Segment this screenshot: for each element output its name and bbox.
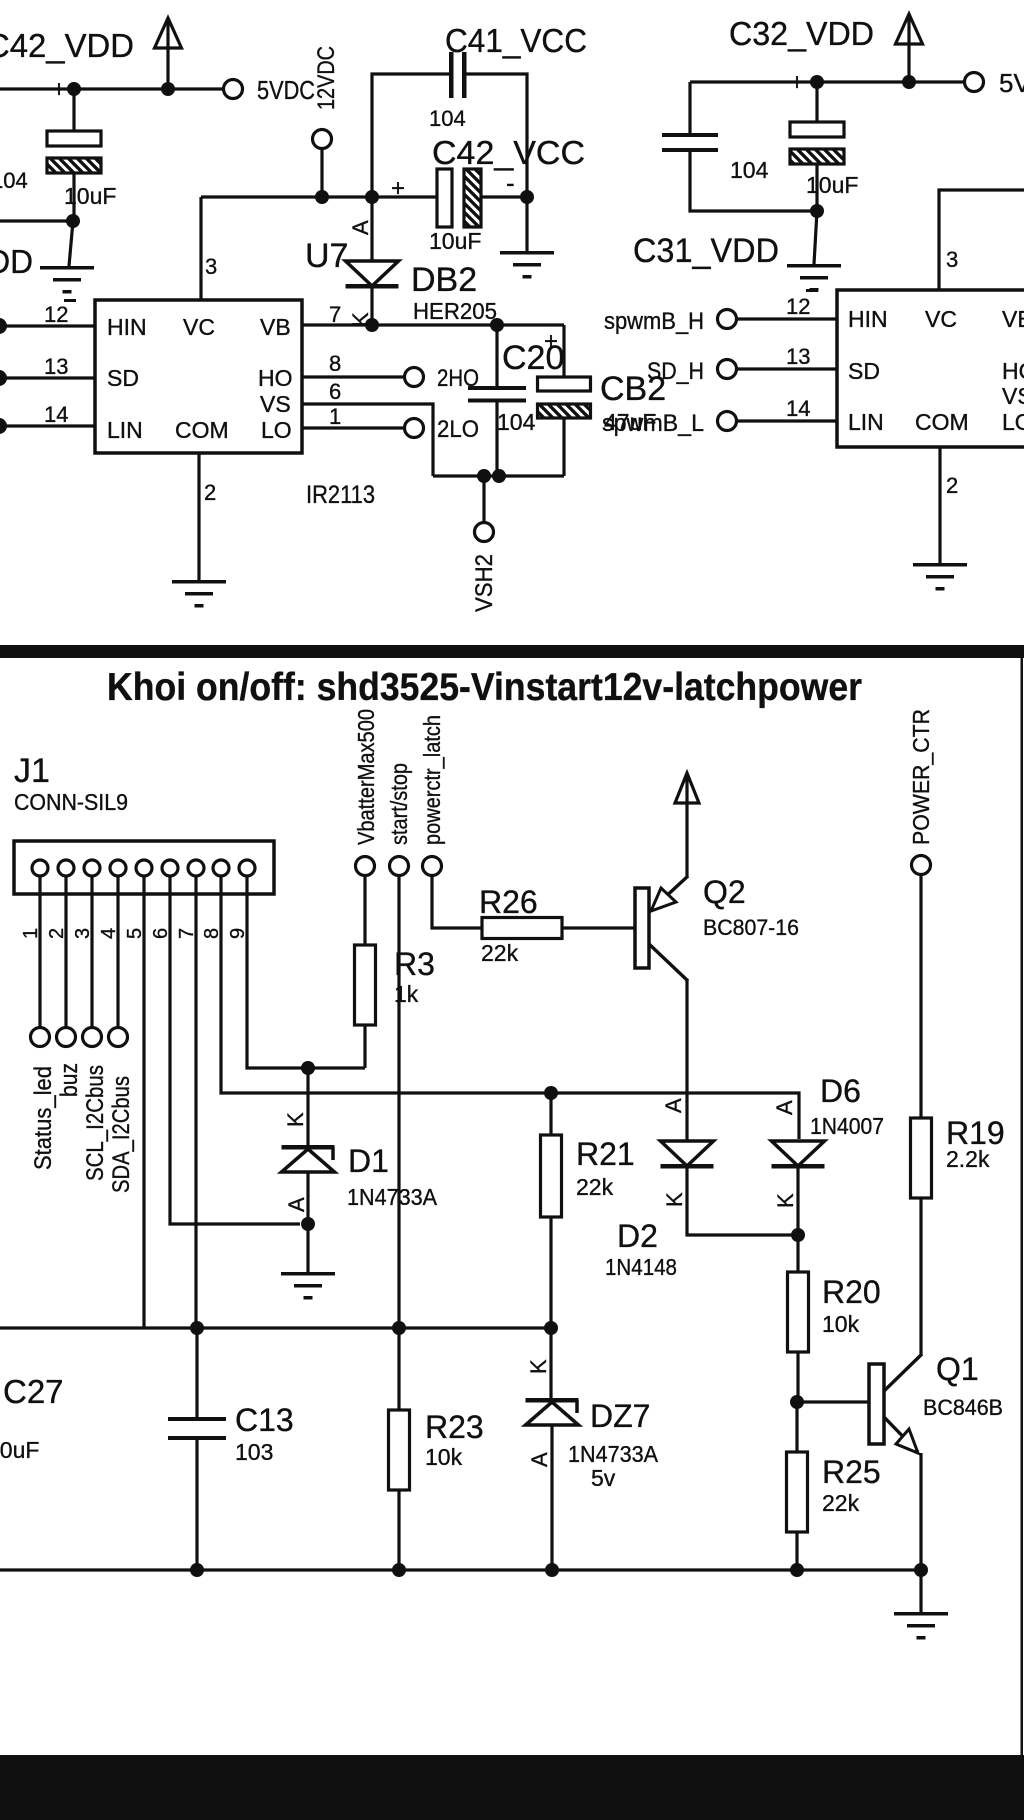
svg-text:R21: R21 xyxy=(576,1136,635,1172)
junction D1 anode / pin6 xyxy=(301,1217,315,1231)
pin 1 wire LO xyxy=(302,426,405,429)
svg-text:104: 104 xyxy=(429,106,466,131)
pin 3 wire VC right IC xyxy=(939,190,1024,290)
svg-text:BC807-16: BC807-16 xyxy=(703,915,799,940)
svg-text:10k: 10k xyxy=(822,1311,860,1337)
svg-text:J1: J1 xyxy=(14,752,50,790)
svg-text:10k: 10k xyxy=(425,1444,463,1470)
svg-text:VbatterMax500: VbatterMax500 xyxy=(353,709,379,845)
resistor R19 xyxy=(911,1118,932,1198)
wire down to ground right of C42_VCC xyxy=(525,197,528,251)
svg-text:spwmB_L: spwmB_L xyxy=(602,410,704,437)
svg-text:12VDC: 12VDC xyxy=(313,46,340,110)
svg-text:1N4733A: 1N4733A xyxy=(568,1441,659,1467)
pin 7 wire VB xyxy=(302,323,564,326)
capacitor C31 104 (ceramic) xyxy=(688,82,691,133)
wire Q1 emitter to ground rail xyxy=(919,1453,922,1570)
svg-text:Status_led: Status_led xyxy=(30,1066,57,1170)
svg-text:C27: C27 xyxy=(3,1373,64,1410)
diode DB2 HER205 xyxy=(346,261,399,286)
svg-text:SD_H: SD_H xyxy=(647,358,704,385)
svg-text:R26: R26 xyxy=(479,884,538,920)
svg-text:6: 6 xyxy=(329,379,341,404)
wire R20 top xyxy=(796,1235,799,1272)
wire R21 bottom to mid rail xyxy=(549,1217,552,1328)
svg-text:K: K xyxy=(283,1112,308,1127)
svg-text:1N4733A: 1N4733A xyxy=(347,1184,438,1210)
IC IR2113 box (right, clipped) xyxy=(837,290,1024,447)
resistor R23 xyxy=(389,1410,410,1490)
capacitor C42_VCC 10uF (electrolytic, horizontal) xyxy=(437,169,452,227)
wire D2 cathode to R20 node xyxy=(687,1166,798,1235)
svg-text:K: K xyxy=(662,1192,687,1207)
svg-text:Khoi on/off: shd3525-Vinstart1: Khoi on/off: shd3525-Vinstart12v-latchpo… xyxy=(107,666,862,709)
transistor Q1 BC846B (NPN) xyxy=(869,1364,884,1444)
terminal buz xyxy=(57,1028,76,1047)
junction ground rail/R23 xyxy=(392,1563,406,1577)
bottom black bar xyxy=(0,1755,1024,1820)
svg-text:IR2113: IR2113 xyxy=(306,481,375,509)
svg-text:LO: LO xyxy=(261,417,292,443)
wire VSH2 drop xyxy=(482,476,485,523)
terminal VbatterMax500 xyxy=(356,857,375,876)
svg-text:VC: VC xyxy=(925,306,957,332)
svg-text:12: 12 xyxy=(786,294,810,319)
svg-text:HO: HO xyxy=(1002,358,1024,384)
resistor R20 xyxy=(788,1272,809,1352)
resistor R25 xyxy=(787,1452,808,1532)
junction R21 top xyxy=(544,1086,558,1100)
transistor Q2 BC807-16 (PNP) xyxy=(635,888,649,968)
capacitor CB2 47uF (electrolytic) xyxy=(562,325,565,377)
svg-text:A: A xyxy=(348,220,373,235)
wire down to ground below C32 xyxy=(814,211,817,264)
cathode wire of DB2 to VB node xyxy=(370,288,373,325)
resistor R3 xyxy=(355,945,376,1025)
svg-text:1N4148: 1N4148 xyxy=(605,1254,677,1280)
terminal start/stop xyxy=(390,857,409,876)
wire Q2 collector down to D2 xyxy=(685,980,688,1140)
junction VB / DB2 cathode xyxy=(365,318,379,332)
svg-text:CONN-SIL9: CONN-SIL9 xyxy=(14,789,128,815)
connector pin 1 circle xyxy=(32,860,48,876)
wire Q1 base xyxy=(797,1400,869,1403)
junction rail/R23 xyxy=(392,1321,406,1335)
diode D2 1N4148 xyxy=(661,1141,714,1166)
svg-text:C42_VDD: C42_VDD xyxy=(0,27,134,64)
wire J1 pin 2 to terminal xyxy=(64,875,67,1028)
terminal 5VDC xyxy=(224,80,243,99)
svg-text:C41_VDD: C41_VDD xyxy=(0,243,33,280)
svg-text:VS: VS xyxy=(260,391,291,417)
svg-text:5v: 5v xyxy=(591,1465,616,1491)
svg-text:powerctr_latch: powerctr_latch xyxy=(419,715,445,845)
svg-text:1: 1 xyxy=(329,404,341,429)
svg-text:A: A xyxy=(772,1100,797,1115)
svg-text:1N4007: 1N4007 xyxy=(810,1113,884,1139)
pin 6 wire VS xyxy=(302,404,433,476)
svg-text:2: 2 xyxy=(204,480,216,505)
junction C32 top xyxy=(810,75,824,89)
zener diode DZ7 1N4733A xyxy=(526,1398,579,1403)
wire J1 pin 8 down and right to D6 xyxy=(221,875,799,1139)
svg-text:VS: VS xyxy=(1002,383,1024,409)
terminal powerctr_latch xyxy=(423,857,442,876)
svg-text:POWER_CTR: POWER_CTR xyxy=(908,709,934,845)
wire J1 pin 3 to terminal xyxy=(90,875,93,1028)
wire C41 right xyxy=(466,74,527,197)
svg-text:R25: R25 xyxy=(822,1454,881,1490)
junction VB / C20 xyxy=(490,318,504,332)
junction R20/R25/Q1 base xyxy=(790,1395,804,1409)
wire D1 anode to ground xyxy=(306,1224,309,1272)
svg-text:22k: 22k xyxy=(481,940,519,966)
capacitor C13 103 xyxy=(195,1328,198,1417)
pin 3 wire VC up to VCC node xyxy=(199,197,202,300)
wire powerctr_latch to R26 xyxy=(432,875,482,928)
wire R25 bottom xyxy=(795,1532,798,1570)
junction ground rail/DZ7 xyxy=(545,1563,559,1577)
terminal Status_led xyxy=(31,1028,50,1047)
svg-text:C13: C13 xyxy=(235,1402,294,1438)
connector pin 5 circle xyxy=(136,860,152,876)
junction below right power arrow xyxy=(902,75,916,89)
mid node rail xyxy=(0,1326,551,1329)
svg-text:10uF: 10uF xyxy=(64,183,116,209)
terminal VSH2 xyxy=(475,523,494,542)
wire R21 top xyxy=(549,1093,552,1135)
svg-text:VSH2: VSH2 xyxy=(471,554,498,612)
wire R3 bottom xyxy=(363,1025,366,1068)
zener diode D1 1N4733A xyxy=(282,1145,335,1150)
section divider bar xyxy=(0,645,1024,658)
junction ground rail/Q1 xyxy=(914,1563,928,1577)
svg-text:spwmB_H: spwmB_H xyxy=(604,308,704,335)
svg-text:R23: R23 xyxy=(425,1409,484,1445)
svg-text:14: 14 xyxy=(786,396,810,421)
junction rail/C13 xyxy=(190,1321,204,1335)
svg-text:SD: SD xyxy=(848,358,880,384)
wire J1 pin 7 down to mid rail xyxy=(194,875,197,1328)
wire VS bottom rail xyxy=(433,474,564,477)
svg-text:COM: COM xyxy=(175,417,229,443)
junction DB2/C41 node xyxy=(365,190,379,204)
svg-text:D6: D6 xyxy=(820,1073,861,1109)
junction below power arrow xyxy=(161,82,175,96)
svg-text:3: 3 xyxy=(946,247,958,272)
connector pin 4 circle xyxy=(110,860,126,876)
svg-text:+: + xyxy=(544,328,558,355)
pin 14 input wire LIN xyxy=(5,424,95,427)
wire VDD net at left xyxy=(0,219,73,222)
svg-text:SCL_I2Cbus: SCL_I2Cbus xyxy=(82,1065,109,1181)
wire J1 pin 4 to terminal xyxy=(116,875,119,1028)
pin 13 wire right IC xyxy=(736,367,837,370)
svg-text:5VDC: 5VDC xyxy=(257,75,315,105)
svg-text:HER205: HER205 xyxy=(413,298,497,324)
ground rail bottom xyxy=(0,1568,921,1571)
wire J1 pin 6 down to D1 anode xyxy=(170,875,300,1224)
junction D2/D6/R20 xyxy=(791,1228,805,1242)
terminal 12VDC xyxy=(313,130,332,149)
svg-text:103: 103 xyxy=(235,1439,273,1465)
svg-text:R20: R20 xyxy=(822,1274,881,1310)
svg-text:D2: D2 xyxy=(617,1218,658,1254)
wire C42_VCC right to ground node xyxy=(481,195,527,198)
svg-text:DZ7: DZ7 xyxy=(590,1398,650,1434)
junction at C42 top xyxy=(67,82,81,96)
svg-text:LIN: LIN xyxy=(107,417,143,443)
junction rail/R21/DZ7 xyxy=(544,1321,558,1335)
wire R25 top xyxy=(795,1402,798,1452)
svg-text:U7: U7 xyxy=(305,237,348,275)
terminal 2LO xyxy=(405,419,424,438)
svg-text:HO: HO xyxy=(258,365,293,391)
junction C20 bottom xyxy=(492,469,506,483)
svg-text:start/stop: start/stop xyxy=(386,763,412,845)
IC U? IR2113 box (left) xyxy=(95,300,302,453)
wire DZ7 top xyxy=(549,1328,552,1398)
connector pin 8 circle xyxy=(213,860,229,876)
resistor R21 xyxy=(541,1135,562,1217)
svg-text:22k: 22k xyxy=(822,1490,860,1516)
svg-text:BC846B: BC846B xyxy=(923,1395,1003,1420)
overline mark above 12 right IC xyxy=(806,289,818,292)
wire R20 bottom to Q1 base node xyxy=(796,1352,799,1402)
svg-text:10uF: 10uF xyxy=(0,1437,39,1463)
svg-text:VC: VC xyxy=(183,314,215,340)
capacitor C20 104 xyxy=(495,325,498,386)
capacitor C41 104 (ceramic) xyxy=(449,52,454,98)
ground symbol bottom right xyxy=(894,1612,948,1616)
connector J1 body xyxy=(14,841,274,894)
svg-text:104: 104 xyxy=(497,409,536,435)
svg-text:LIN: LIN xyxy=(848,409,884,435)
wire R19 bottom to Q1 collector xyxy=(919,1198,922,1355)
connector pin 2 circle xyxy=(58,860,74,876)
svg-text:+: + xyxy=(52,76,66,103)
anode wire of DB2 xyxy=(370,197,373,261)
svg-text:DB2: DB2 xyxy=(411,261,477,299)
junction ground rail/C13 xyxy=(190,1563,204,1577)
wire D1 top xyxy=(306,1068,309,1145)
junction R3/pin9/D1 xyxy=(301,1061,315,1075)
svg-text:14: 14 xyxy=(44,402,68,427)
terminal pin 12 (clipped) xyxy=(0,318,7,334)
resistor R26 xyxy=(482,918,562,939)
ground below D1 xyxy=(281,1272,335,1276)
pin 8 wire HO xyxy=(302,375,405,378)
svg-text:22k: 22k xyxy=(576,1174,614,1200)
junction at C42_VCC right xyxy=(520,190,534,204)
svg-text:10uF: 10uF xyxy=(806,172,858,198)
power arrow VDD xyxy=(155,18,182,48)
svg-text:+: + xyxy=(391,175,405,202)
overline mark above 12 xyxy=(64,299,76,302)
wire VCC node horizontal xyxy=(201,195,437,198)
wire POWER_CTR down to R19 xyxy=(919,874,922,1118)
svg-text:buz: buz xyxy=(56,1063,83,1097)
svg-text:5VDC: 5VDC xyxy=(999,68,1024,98)
svg-text:13: 13 xyxy=(44,354,68,379)
terminal SDA_I2Cbus xyxy=(109,1028,128,1047)
svg-text:SD: SD xyxy=(107,365,139,391)
svg-text:+: + xyxy=(790,69,804,96)
terminal spwmB_H xyxy=(718,310,737,329)
svg-text:C32_VDD: C32_VDD xyxy=(729,15,874,52)
svg-text:K: K xyxy=(773,1193,798,1208)
pin 12 input wire HIN xyxy=(5,324,95,327)
wire J1 pin 1 to terminal xyxy=(38,875,41,1028)
svg-text:HIN: HIN xyxy=(107,314,147,340)
wire start/stop down to R23 xyxy=(397,875,400,1410)
svg-text:Q1: Q1 xyxy=(936,1351,979,1387)
pin 12 wire right IC xyxy=(736,317,837,320)
wire D1 anode xyxy=(306,1172,309,1224)
svg-text:C42_VCC: C42_VCC xyxy=(432,134,585,171)
terminal spwmB_L xyxy=(718,412,737,431)
svg-text:K: K xyxy=(526,1359,551,1374)
svg-text:C31_VDD: C31_VDD xyxy=(633,232,779,270)
wire R23 bottom xyxy=(397,1490,400,1570)
svg-text:104: 104 xyxy=(730,157,769,183)
wire from 12VDC terminal down to VCC node xyxy=(320,148,323,197)
junction C31/C32 bottom xyxy=(810,204,824,218)
svg-text:SDA_I2Cbus: SDA_I2Cbus xyxy=(108,1076,135,1193)
svg-text:3: 3 xyxy=(205,254,217,279)
svg-text:VB: VB xyxy=(1002,306,1024,332)
svg-text:A: A xyxy=(284,1197,309,1212)
connector pin 9 circle xyxy=(239,860,255,876)
svg-text:LO: LO xyxy=(1002,409,1024,435)
junction ground rail/R25 xyxy=(790,1563,804,1577)
wire J1 pin 9 down and right to R3 bottom xyxy=(247,875,365,1068)
pin 2 wire COM right IC xyxy=(938,447,941,563)
ground below right IC xyxy=(913,563,967,567)
wire down to ground xyxy=(69,221,73,266)
connector pin 6 circle xyxy=(162,860,178,876)
terminal SCL_I2Cbus xyxy=(83,1028,102,1047)
right border line of lower section xyxy=(1021,658,1024,1755)
svg-text:13: 13 xyxy=(786,344,810,369)
pin 2 wire COM down to ground xyxy=(197,453,200,580)
svg-text:Q2: Q2 xyxy=(703,874,746,910)
connector pin 7 circle xyxy=(188,860,204,876)
svg-text:HIN: HIN xyxy=(848,306,888,332)
terminal pin 13 (clipped) xyxy=(0,370,7,386)
svg-text:7: 7 xyxy=(329,302,341,327)
terminal 5VDC right xyxy=(965,73,984,92)
svg-text:2.2k: 2.2k xyxy=(946,1146,990,1172)
wire C41 left xyxy=(372,74,449,197)
svg-text:A: A xyxy=(527,1452,552,1467)
ground right of C42_VCC xyxy=(500,251,554,255)
junction VSH2 tap xyxy=(477,469,491,483)
terminal 2HO xyxy=(405,368,424,387)
svg-text:8: 8 xyxy=(329,351,341,376)
power arrow VDD right xyxy=(896,14,923,44)
pin 13 input wire SD xyxy=(5,376,95,379)
wire J1 pin 5 down to bottom node rail xyxy=(142,875,145,1328)
wire DZ7 anode to ground rail xyxy=(550,1425,553,1570)
svg-text:2LO: 2LO xyxy=(437,416,479,443)
wire D6 cathode xyxy=(796,1166,799,1235)
ground below C32 xyxy=(787,264,841,268)
terminal SD_H xyxy=(718,360,737,379)
connector pin 3 circle xyxy=(84,860,100,876)
svg-text:A: A xyxy=(661,1098,686,1113)
svg-text:2: 2 xyxy=(946,473,958,498)
ground below C42 xyxy=(40,266,94,270)
svg-text:D1: D1 xyxy=(348,1143,389,1179)
pin 14 wire right IC xyxy=(736,419,837,422)
svg-text:12: 12 xyxy=(44,302,68,327)
ground below COM xyxy=(172,580,226,584)
svg-text:COM: COM xyxy=(915,409,969,435)
svg-text:104: 104 xyxy=(0,168,28,193)
capacitor C42 10uF (electrolytic) xyxy=(72,89,75,131)
wire to bottom ground symbol xyxy=(919,1570,922,1612)
wire 5VDC rail xyxy=(0,87,224,90)
power arrow above Q2 xyxy=(675,773,699,803)
wire R26 to Q2 base xyxy=(562,926,635,929)
capacitor C32 10uF (electrolytic) xyxy=(815,82,818,122)
svg-text:VB: VB xyxy=(260,314,291,340)
junction 12VDC drop xyxy=(315,190,329,204)
terminal POWER_CTR xyxy=(912,856,931,875)
diode D6 1N4007 xyxy=(772,1141,825,1166)
svg-text:-: - xyxy=(506,168,515,198)
wire VbatterMax500 to R3 xyxy=(363,875,366,945)
svg-text:10uF: 10uF xyxy=(429,228,481,254)
wire 5VDC rail right xyxy=(690,80,966,83)
terminal pin 14 (clipped) xyxy=(0,418,7,434)
junction C42 bottom xyxy=(66,214,80,228)
